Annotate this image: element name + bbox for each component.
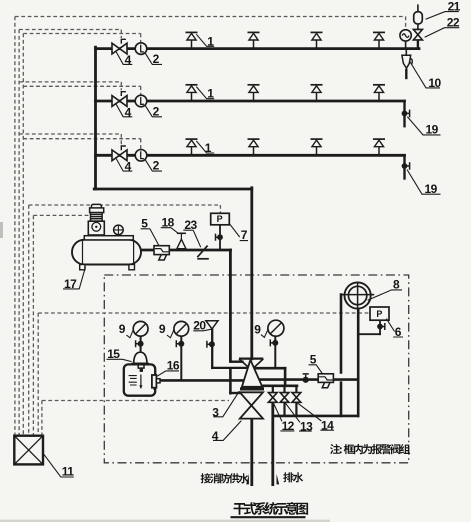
title underline bbox=[231, 516, 306, 518]
leader label 8 bbox=[368, 290, 402, 300]
pipe: alarm line to gong bbox=[261, 378, 359, 381]
pipe: compressor air line vertical (middle) bbox=[229, 369, 232, 378]
alarm valve group frame (dash-dot box) bbox=[104, 275, 408, 463]
pipe: drain pipe bbox=[271, 402, 274, 484]
test valve 14 bbox=[292, 393, 301, 403]
svg-text:2: 2 bbox=[153, 52, 160, 66]
svg-text:1: 1 bbox=[207, 34, 214, 48]
title: 干式系统示意图 bbox=[234, 502, 309, 515]
wire bus 1 (exhauster pressure switch) vertical bbox=[14, 17, 16, 436]
gauge B cock bbox=[178, 341, 184, 347]
pipe: valve outlet jog vertical bbox=[284, 368, 287, 386]
wire bus 5 (compressor motor) vertical bbox=[32, 215, 34, 435]
gauge A cock bbox=[138, 341, 144, 347]
leader label 14 bbox=[297, 403, 334, 430]
leader label 13 bbox=[285, 403, 312, 431]
test valve 13 bbox=[280, 393, 289, 403]
svg-text:9: 9 bbox=[159, 322, 166, 336]
scan artifact: left-edge smudge bbox=[0, 222, 3, 238]
svg-text:16: 16 bbox=[167, 359, 180, 373]
test funnel 20 bbox=[206, 321, 218, 329]
air compressor 17: tank bbox=[72, 240, 141, 265]
leader label 4 row2 bbox=[116, 104, 132, 117]
pipe: gong outlet riser (lower) bbox=[340, 383, 343, 416]
pipe: pressure switch 7 stem bbox=[219, 225, 221, 250]
leader label 16 bbox=[157, 371, 179, 376]
exhauster isolation valve 22 bbox=[413, 29, 422, 40]
svg-text:9: 9 bbox=[119, 322, 126, 336]
pipe: gauge C stem bbox=[274, 336, 276, 368]
pipe: gauge B stem bbox=[180, 336, 182, 380]
compressor top plate bbox=[84, 236, 133, 240]
gong crosshair overlay bbox=[341, 282, 374, 309]
leader label 10 bbox=[410, 62, 440, 88]
pipe: compressor air line horizontal bbox=[141, 249, 231, 252]
svg-text:13: 13 bbox=[300, 419, 313, 433]
svg-text:5: 5 bbox=[310, 353, 317, 367]
wire row1 flow indicator run bbox=[23, 33, 140, 35]
sprinkler head 1 (row 2 #1) bbox=[191, 93, 193, 101]
pipe: pressure switch 6 branch bbox=[358, 333, 380, 335]
svg-text:P: P bbox=[217, 214, 223, 224]
pipe: gong crosshair vertical bbox=[357, 282, 359, 309]
wire pressure switch 6 run bbox=[38, 312, 370, 314]
pipe: air line stub into dry valve top bbox=[230, 361, 242, 363]
wire bus 6 (pressure switch 6) vertical bbox=[37, 313, 39, 436]
svg-text:8: 8 bbox=[393, 278, 400, 292]
drain funnel 10 bbox=[402, 55, 411, 68]
leader label 5 (compressor) bbox=[141, 229, 160, 246]
sprinkler head 1 (row 3 #1) bbox=[191, 147, 193, 155]
pipe: valve outlet jog horizontal bbox=[253, 367, 285, 370]
sprinkler head 1 (row 1 #2) bbox=[253, 40, 255, 48]
sprinkler head 1 (row 3 #4) bbox=[378, 147, 380, 155]
pipe: valve 14 outlet stem bbox=[295, 402, 297, 416]
pipe: alarm test line (left) bbox=[160, 379, 243, 382]
drain cock on alarm line bbox=[303, 377, 309, 383]
leader label 22 bbox=[425, 28, 460, 38]
leader label 4 row3 bbox=[116, 159, 132, 172]
svg-text:2: 2 bbox=[153, 104, 160, 118]
sprinkler head 1 (row 1 #4) bbox=[378, 40, 380, 48]
svg-text:4: 4 bbox=[125, 53, 132, 67]
signal butterfly valve 4 (row 1) bbox=[112, 43, 127, 54]
wire compressor motor run bbox=[33, 214, 89, 216]
signal butterfly valve 4 (row 3) bbox=[112, 150, 127, 161]
pipe: gong drain riser bbox=[357, 309, 360, 416]
pipe: gauge A stem bbox=[140, 336, 142, 352]
pipe: test connection 20 stem bbox=[211, 329, 213, 368]
signal butterfly valve 4 (row 2) bbox=[112, 96, 127, 107]
wire row1 flow indicator stub bbox=[140, 34, 142, 43]
gauge C cock bbox=[272, 340, 278, 346]
svg-text:23: 23 bbox=[184, 218, 197, 232]
wire bus 3 (flow indicators) vertical bbox=[22, 34, 24, 436]
leader label 2 row2 bbox=[145, 105, 162, 117]
wire row3 flow indicator stub bbox=[140, 139, 142, 150]
leader label 2 row3 bbox=[145, 159, 162, 171]
sprinkler head 1 (row 1 #1) bbox=[191, 40, 193, 48]
test line 20 cock bbox=[209, 341, 215, 347]
svg-text:P: P bbox=[376, 309, 382, 319]
pressure relief device 16 bbox=[152, 375, 157, 388]
end test valve 19 (row 2) bbox=[402, 111, 408, 117]
pipe: valve 14 stem bbox=[295, 386, 297, 393]
scan artifact: bottom band bbox=[0, 520, 330, 522]
svg-text:19: 19 bbox=[426, 123, 439, 137]
sprinkler head 1 (row 1 #3) bbox=[316, 40, 318, 48]
wire row2 signal valve run bbox=[19, 81, 121, 83]
supply flow arrow bbox=[246, 474, 249, 485]
leader label 18 bbox=[161, 228, 179, 234]
svg-text:12: 12 bbox=[282, 419, 295, 433]
pipe: branch row 2 bbox=[96, 100, 405, 103]
pipe: exhauster stem middle bbox=[417, 24, 419, 29]
pipe: test connection 20 run bbox=[212, 367, 249, 369]
pipe: branch row 2 end drop bbox=[403, 101, 405, 126]
sprinkler head 1 (row 2 #2) bbox=[253, 93, 255, 101]
pipe: branch row 3 end drop bbox=[403, 155, 405, 178]
pipe: compressor air line vertical (lower) bbox=[229, 383, 232, 394]
end test valve 19 (row 3) bbox=[402, 163, 408, 169]
svg-text:4: 4 bbox=[212, 429, 219, 443]
wire row3 flow indicator run bbox=[23, 138, 140, 140]
pipe: main riser bbox=[94, 47, 97, 189]
svg-text:22: 22 bbox=[447, 16, 460, 30]
flexible connection 5 (alarm line) bbox=[318, 374, 333, 383]
wire top run to air-vent pressure switch bbox=[15, 16, 406, 18]
leader label 1 row1 bbox=[196, 34, 214, 46]
leader label 9 B bbox=[167, 329, 174, 337]
svg-text:19: 19 bbox=[425, 182, 438, 196]
pipe: air-vent switch stem bbox=[405, 41, 407, 49]
water motor gong 8 bbox=[345, 282, 371, 308]
automatic exhauster 21 bbox=[414, 12, 423, 24]
leader label 20 bbox=[193, 329, 211, 331]
svg-text:11: 11 bbox=[62, 465, 74, 479]
pressure switch 6 gauge cock bbox=[377, 324, 383, 330]
leader label 1 row3 bbox=[196, 141, 214, 153]
leader label 23 bbox=[183, 230, 200, 247]
pipe: air line into valve trim bbox=[231, 392, 240, 394]
air pressure switch (top right) bbox=[400, 30, 411, 41]
leader label 1 row2 bbox=[196, 87, 214, 99]
leader label 11 bbox=[43, 453, 74, 477]
safety valve 18 bbox=[177, 232, 186, 234]
wire bus 4 (pressure switch 7) vertical bbox=[28, 205, 30, 436]
svg-text:15: 15 bbox=[107, 347, 120, 361]
leader label 4 row1 bbox=[116, 52, 132, 65]
leader label 2 row1 bbox=[145, 52, 162, 64]
wire row2 flow indicator run bbox=[23, 85, 140, 87]
pipe: gong crosshair horizontal bbox=[341, 294, 374, 296]
compressor legs bbox=[80, 265, 85, 270]
flexible connection 5 (compressor line) bbox=[154, 246, 169, 255]
fire alarm control panel 11 bbox=[14, 436, 43, 465]
compressor tank gauge bbox=[114, 225, 124, 235]
svg-text:10: 10 bbox=[428, 76, 441, 90]
svg-text:14: 14 bbox=[321, 418, 334, 432]
pressure gauge 9 (C) bbox=[268, 320, 284, 336]
pipe: riser offset horizontal bbox=[94, 188, 252, 191]
pressure switch 7 bbox=[211, 213, 230, 225]
leader label 19 row3 bbox=[407, 170, 441, 195]
pipe: exhauster stem top bbox=[417, 5, 419, 11]
water tank of alarm assembly bbox=[124, 364, 155, 395]
pipe: branch row 1 bbox=[96, 47, 420, 50]
water flow indicator 2 (row 1) bbox=[135, 43, 147, 55]
wire row3 signal valve run bbox=[19, 133, 121, 135]
pipe: fire water supply pipe bbox=[250, 418, 253, 484]
svg-text:7: 7 bbox=[241, 228, 248, 242]
leader label 5 (alarm line) bbox=[309, 365, 323, 374]
pressure gauge 9 (A) bbox=[133, 321, 148, 336]
leader label 3 bbox=[213, 391, 239, 417]
sprinkler head 1 (row 3 #3) bbox=[316, 147, 318, 155]
drain text: 排水 bbox=[283, 472, 303, 482]
wire alarm valve signal run bbox=[42, 400, 229, 402]
sprinkler head 1 (row 2 #4) bbox=[378, 93, 380, 101]
pipe: valve 13 stem bbox=[283, 386, 285, 393]
supply text: 接消防供水 bbox=[201, 473, 249, 483]
svg-text:9: 9 bbox=[254, 323, 261, 337]
leader label 17 bbox=[63, 267, 86, 289]
wire bus 7 vertical bbox=[41, 401, 43, 436]
note text: 注:框内为报警阀组 bbox=[330, 444, 410, 454]
wire row3 signal valve stub bbox=[120, 134, 122, 145]
pipe: exhauster stem lower bbox=[417, 40, 419, 49]
leader label 21 bbox=[426, 12, 459, 20]
svg-text:6: 6 bbox=[395, 325, 402, 339]
leader label 19 row2 bbox=[407, 117, 440, 135]
svg-text:4: 4 bbox=[125, 160, 132, 174]
pipe: branch row 3 bbox=[96, 154, 405, 157]
pipe: gong outlet riser (upper) bbox=[340, 295, 343, 373]
svg-text:20: 20 bbox=[193, 318, 206, 332]
svg-text:18: 18 bbox=[162, 216, 175, 230]
check valve 23 bbox=[197, 246, 207, 258]
pipe: drain collector bbox=[273, 415, 358, 418]
drain flow arrow bbox=[277, 474, 280, 485]
svg-text:3: 3 bbox=[212, 405, 219, 419]
sprinkler head 1 (row 2 #3) bbox=[316, 93, 318, 101]
svg-text:21: 21 bbox=[448, 0, 461, 13]
leader label 12 bbox=[273, 403, 294, 431]
pressure switch 7 gauge cock bbox=[217, 234, 223, 240]
dry pipe alarm valve 3 bbox=[239, 358, 263, 360]
leader label 9 C bbox=[261, 329, 268, 338]
wire drop to air-vent pressure switch bbox=[405, 17, 407, 30]
pressure gauge 9 (B) bbox=[174, 321, 189, 336]
leader label 4 (main valve) bbox=[213, 421, 241, 441]
svg-text:1: 1 bbox=[207, 87, 214, 101]
pressure switch 6 bbox=[370, 307, 389, 320]
pipe: pressure switch 6 stem bbox=[379, 320, 381, 334]
pipe: drain funnel outlet stub bbox=[405, 70, 407, 78]
wire row2 signal valve stub bbox=[120, 82, 122, 91]
wire row1 signal valve run bbox=[19, 29, 121, 31]
sprinkler head 1 (row 3 #2) bbox=[253, 147, 255, 155]
water flow indicator 2 (row 3) bbox=[135, 150, 147, 162]
pipe: riser down to dry valve bbox=[250, 188, 253, 359]
water flow indicator 2 (row 2) bbox=[135, 95, 147, 107]
pipe: drain funnel drop bbox=[405, 50, 407, 56]
pipe: valve 12 stem bbox=[272, 386, 274, 393]
test valve 12 bbox=[268, 393, 277, 403]
leader label 15 bbox=[107, 359, 132, 361]
svg-text:2: 2 bbox=[153, 159, 160, 173]
pipe: compressor air line vertical (upper) bbox=[229, 250, 232, 361]
svg-text:4: 4 bbox=[125, 105, 132, 119]
pipe: test valve header bbox=[264, 384, 298, 387]
leader label 6 bbox=[386, 319, 403, 337]
svg-text:17: 17 bbox=[64, 277, 77, 291]
alarm bell 15 bbox=[134, 352, 147, 363]
compressor motor bbox=[91, 204, 101, 208]
wire row2 flow indicator stub bbox=[140, 86, 142, 95]
main control valve 4 bbox=[240, 392, 263, 418]
wire pressure switch 7 run bbox=[29, 204, 221, 206]
svg-text:1: 1 bbox=[205, 141, 212, 155]
leader label 9 A bbox=[126, 329, 133, 337]
wire row1 signal valve stub bbox=[120, 30, 122, 39]
wire bus 2 (branch signal valves) vertical bbox=[18, 30, 20, 436]
svg-text:5: 5 bbox=[141, 217, 148, 231]
leader label 7 bbox=[230, 224, 249, 241]
pipe: valve 13 outlet stem bbox=[283, 402, 285, 416]
wire pressure switch 7 stub bbox=[219, 205, 221, 213]
